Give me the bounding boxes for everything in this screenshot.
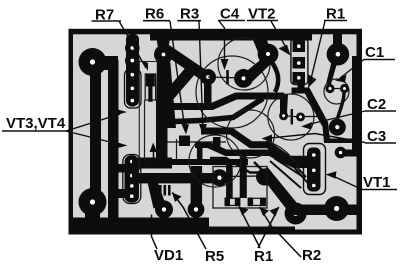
label C2 <box>301 96 396 130</box>
svg-text:R1: R1 <box>254 248 273 265</box>
pad P5 <box>285 203 307 225</box>
wire staircase T3 thin <box>210 158 258 173</box>
wire vertical bus bar1 P1-P2 <box>90 60 101 205</box>
wire X2 to bar2 lower <box>114 189 126 198</box>
wire W1 trace to C2 <box>156 96 284 107</box>
wire T2 left end drop <box>197 148 203 165</box>
arrow on bend (up arrow) <box>150 143 158 163</box>
wire diagonals bundle to VT1 <box>270 152 305 188</box>
wire P2 stem to bottom band <box>85 200 100 224</box>
wire P9 to P5 diagonal <box>259 167 302 215</box>
wire W1 bend down to C2 pad <box>280 93 288 113</box>
pad A (under R6) <box>154 45 173 64</box>
board outline <box>69 29 363 235</box>
pad P1 <box>79 48 107 76</box>
wire T trace below column <box>292 88 309 94</box>
wire band2 to P9 feed <box>254 162 262 170</box>
svg-text:R2: R2 <box>302 247 321 264</box>
label R3 <box>177 6 207 136</box>
wire bottom right band P5-P4 <box>290 205 357 216</box>
pad right lower + stub to border <box>341 150 357 157</box>
transistor VT1 connector column <box>304 144 326 195</box>
resistor R5 smd <box>225 198 241 207</box>
wire stub pad P7 up <box>191 166 203 209</box>
transistor VT3 footprint outline <box>125 69 142 108</box>
wire pad A stub to top band <box>156 34 171 49</box>
resistor R7 target component <box>145 74 155 102</box>
svg-text:C1: C1 <box>365 44 384 61</box>
diode VD1 polarity marks <box>159 185 171 196</box>
label R6 <box>143 6 189 135</box>
svg-text:VT1: VT1 <box>363 174 391 191</box>
label C3 <box>262 128 397 145</box>
wire dumbbell to C2 left pad <box>271 61 278 92</box>
wire pad P1 to vertical bus <box>90 56 118 70</box>
wire vertical bus bar2 <box>108 60 119 228</box>
label R1 bottom <box>239 207 279 265</box>
wire pads row line <box>221 175 264 178</box>
connector column X1 upper <box>125 34 140 107</box>
diode outline circle left-lower <box>189 135 241 187</box>
component thin outline lines left-center <box>139 62 176 171</box>
label C1 <box>335 44 395 83</box>
wire bend down to pad P6 <box>147 178 166 209</box>
pad B (C4 left / junction) <box>200 69 216 85</box>
wire Y branch down-left wedge <box>156 47 176 128</box>
wire C2 right pad lead to diagonal <box>301 116 321 118</box>
pad P7 <box>188 201 205 218</box>
transistor outline circle lower middle <box>227 110 275 158</box>
pad P8 (mid trace right end) <box>211 169 228 186</box>
pad P4 <box>324 196 349 221</box>
ground trace right strip <box>352 56 358 152</box>
label R5 <box>172 193 224 265</box>
connector column X2 lower <box>125 155 140 203</box>
svg-text:VD1: VD1 <box>154 247 183 264</box>
wire W2 trace <box>162 99 263 123</box>
wire staircase T2 <box>195 145 308 165</box>
pad P6 <box>155 200 173 218</box>
wire center bar between resistors <box>240 152 247 198</box>
wire pad A to pad B diagonal <box>159 45 209 82</box>
pad dumbbell upper <box>258 44 279 65</box>
wire horizontal to right border <box>324 139 355 144</box>
wire X2 to bar2 upper <box>114 164 126 173</box>
ground trace top strip <box>150 33 312 41</box>
transistor footprint middle legs <box>163 136 226 149</box>
label VD1 <box>152 215 184 265</box>
capacitor C4 pads and mark <box>208 70 243 85</box>
wire vertical to R5 left pad <box>226 164 233 198</box>
wire dumbbell VT2 pads <box>238 50 277 85</box>
capacitor C1 pads <box>330 88 345 90</box>
pad P3 top right <box>333 31 342 45</box>
wire T diagonal to right <box>303 87 328 126</box>
resistor R1 smd <box>248 198 266 207</box>
component outline arc bottom right <box>266 141 300 172</box>
capacitor C2 outline circle <box>268 94 314 140</box>
label C4 <box>218 6 245 71</box>
wire vertical bar A <box>156 100 168 164</box>
label R7 <box>92 7 149 72</box>
pad right mid <box>329 119 346 136</box>
wire mid horizontal trace <box>132 173 213 183</box>
capacitor C4 outline circle <box>218 38 270 90</box>
wire C1 to pad S-curve <box>337 91 344 120</box>
wire band upper (bar A to X2 and right) <box>132 158 172 169</box>
label VT1 <box>326 171 398 191</box>
label R1 top <box>308 6 347 89</box>
svg-text:R5: R5 <box>205 248 224 265</box>
transistor VT4 footprint outline <box>123 155 141 204</box>
pad P2 <box>79 188 107 216</box>
pad P9 <box>256 169 273 186</box>
wire staircase T1 <box>201 131 308 159</box>
resistor outline box (R1,R2) <box>213 167 267 209</box>
pad A white hole <box>162 53 166 57</box>
transistor VT2 connector column <box>291 38 308 84</box>
wire thin diagonals to P4 area <box>294 167 312 188</box>
capacitor C1 outline circle <box>324 79 349 104</box>
capacitor C2 pads and mark <box>284 116 301 117</box>
wire P3 to C1 left pad <box>326 62 337 86</box>
label VT2 <box>247 6 291 56</box>
label VT3,VT4 <box>2 109 128 150</box>
wire pad B down to W1 <box>204 80 212 108</box>
pad dumbbell lower <box>234 69 253 88</box>
wire X branch from A-B diagonal down-left <box>162 66 196 102</box>
svg-text:VT3,VT4: VT3,VT4 <box>6 115 66 132</box>
label R2 <box>260 207 322 264</box>
component outline circle center <box>196 56 268 128</box>
ground trace bottom band <box>73 218 209 231</box>
